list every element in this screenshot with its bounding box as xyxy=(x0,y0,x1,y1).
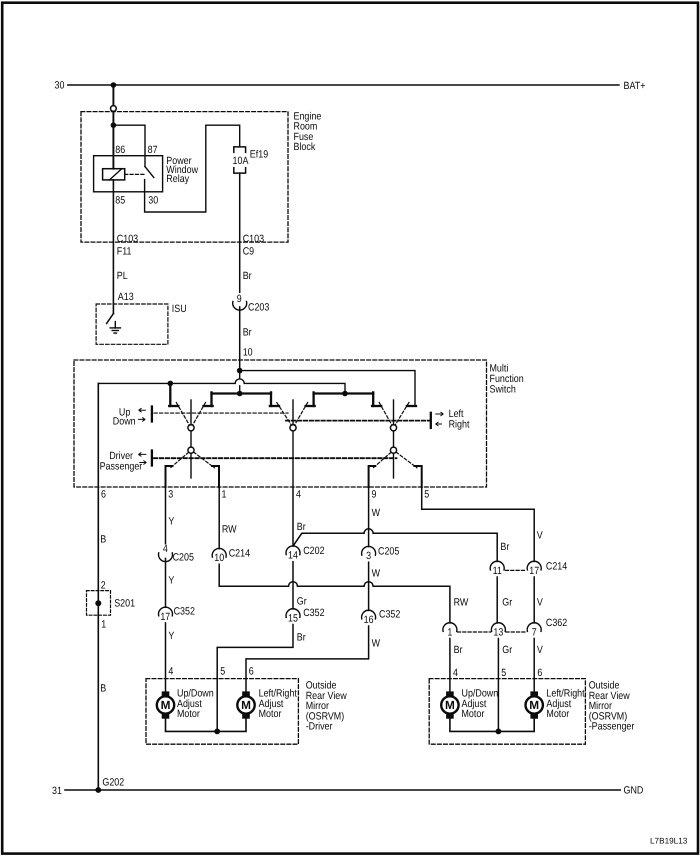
svg-text:2: 2 xyxy=(101,579,106,591)
wire C203 to MFS pin 10 (Br) xyxy=(239,307,241,371)
svg-text:1: 1 xyxy=(101,619,106,631)
svg-text:6: 6 xyxy=(249,666,254,678)
svg-text:C103: C103 xyxy=(117,233,138,245)
svg-text:Br: Br xyxy=(243,327,252,339)
connector C203 pin 9 xyxy=(233,302,247,311)
svg-text:V: V xyxy=(537,597,543,609)
pole3 dashed blades lower xyxy=(373,452,391,468)
svg-text:C205: C205 xyxy=(378,546,399,558)
wire C205-4 (Y) to C352-17 xyxy=(165,558,167,607)
svg-text:BAT+: BAT+ xyxy=(624,80,646,92)
svg-text:4: 4 xyxy=(168,666,173,678)
wire MFS pin4 (Br) to C202-14 xyxy=(292,487,294,546)
svg-text:10A: 10A xyxy=(233,155,249,167)
connector C202 pin 14 xyxy=(286,546,300,555)
wire node to relay pin 87 xyxy=(113,125,145,166)
svg-text:Br: Br xyxy=(243,270,252,282)
svg-text:1: 1 xyxy=(222,489,227,501)
svg-text:C203: C203 xyxy=(248,302,269,314)
Driver/Passenger actuator dashed link xyxy=(154,457,397,459)
ground G202 xyxy=(95,787,101,793)
svg-text:3: 3 xyxy=(168,489,173,501)
Engine Room Fuse Block enclosure xyxy=(81,112,288,243)
arrow left xyxy=(435,412,443,416)
wire fuse to C203 xyxy=(239,173,241,292)
svg-text:C352: C352 xyxy=(379,609,400,621)
svg-text:ISU: ISU xyxy=(172,303,187,315)
svg-text:V: V xyxy=(537,644,543,656)
pole1 pivot circles xyxy=(188,425,194,431)
junction wire10 / bar1 xyxy=(237,391,243,397)
svg-text:Relay: Relay xyxy=(166,173,189,185)
wire C352-15 (Br) to driver motors common pin 5 xyxy=(217,625,293,732)
wire MFS pin5 (V) to C214-17 xyxy=(422,487,535,561)
svg-text:16: 16 xyxy=(364,614,374,626)
svg-text:C362: C362 xyxy=(546,617,567,629)
svg-text:W: W xyxy=(372,568,381,580)
svg-text:11: 11 xyxy=(493,565,502,577)
svg-text:4: 4 xyxy=(296,489,301,501)
pole2 right fixed contact xyxy=(306,405,315,407)
wire MFS pin3 (Y) to C205-4 xyxy=(165,487,167,544)
svg-text:9: 9 xyxy=(372,489,377,501)
arrow down xyxy=(138,417,145,421)
arrow up xyxy=(138,408,443,464)
connector C362 pin 13 xyxy=(491,623,505,632)
contact bar2 (pole2 right + pole3 left) xyxy=(314,392,374,393)
svg-text:S201: S201 xyxy=(114,597,135,609)
svg-text:10: 10 xyxy=(214,552,224,564)
connector C214 pin 17 xyxy=(527,561,541,570)
OSRVM driver enclosure xyxy=(146,679,298,745)
junction passenger rail xyxy=(496,729,502,735)
junction node above relay xyxy=(111,122,117,128)
wire BAT+ rail to connector xyxy=(112,85,114,106)
svg-text:A13: A13 xyxy=(118,291,134,303)
svg-text:5: 5 xyxy=(220,666,225,678)
wire left bus to ground rail (pin 6 / B) xyxy=(97,383,99,790)
svg-text:B: B xyxy=(100,683,106,695)
svg-text:1: 1 xyxy=(447,627,452,639)
svg-text:RW: RW xyxy=(454,597,469,609)
pole3 armature xyxy=(393,400,395,478)
node 30 / BAT+ rail xyxy=(68,84,619,86)
svg-text:Motor: Motor xyxy=(462,708,485,720)
wire C214-17 (V) to C362-7 xyxy=(533,577,535,623)
svg-text:Switch: Switch xyxy=(490,384,516,396)
wire C362-13 (Gr) to passenger motors common pin 5 xyxy=(497,639,499,732)
pole3 lower contact pin9 xyxy=(369,466,376,487)
pole1 lower contact pin3 xyxy=(166,466,173,487)
Left/Right actuator dashed link xyxy=(286,420,430,422)
svg-text:L7B19L13: L7B19L13 xyxy=(650,836,688,845)
wire C352-16 (W) to driver left/right motor pin 6 xyxy=(246,626,369,691)
connector C352 pin 17 xyxy=(159,607,173,616)
C214 mating dashed link xyxy=(506,569,527,571)
svg-text:7: 7 xyxy=(532,627,537,639)
svg-text:M: M xyxy=(445,698,455,712)
fuse Ef19 10A xyxy=(234,147,246,173)
svg-text:87: 87 xyxy=(148,144,158,156)
splice S201 xyxy=(87,591,111,616)
svg-text:C352: C352 xyxy=(303,607,324,619)
svg-text:4: 4 xyxy=(453,667,458,679)
svg-text:C352: C352 xyxy=(174,605,195,617)
svg-text:C9: C9 xyxy=(243,246,255,258)
svg-text:15: 15 xyxy=(288,613,298,625)
pole2 left fixed contact xyxy=(270,405,279,407)
wire branch MFS pin4 (Br) to C214-11 with hop xyxy=(293,529,497,562)
inline connector (open circle) xyxy=(111,106,117,112)
connector C362 pin 1 xyxy=(443,623,457,632)
pole1 armature xyxy=(190,400,192,478)
svg-text:C202: C202 xyxy=(303,545,324,557)
svg-text:G202: G202 xyxy=(102,777,124,789)
pole2 armature (continues as pin 4) xyxy=(292,400,294,487)
wire C214-10 (RW) to C362-1 with hops xyxy=(219,564,450,623)
relay coil xyxy=(103,169,125,180)
svg-text:86: 86 xyxy=(115,144,125,156)
svg-text:Br: Br xyxy=(454,644,463,656)
svg-text:RW: RW xyxy=(222,523,237,535)
connector C214 pin 10 xyxy=(212,548,226,557)
connector C362 pin 7 xyxy=(527,623,541,632)
motor M driver up/down xyxy=(157,691,174,718)
wire pin6 bus with hop over wire 10 xyxy=(98,379,345,394)
svg-text:Motor: Motor xyxy=(259,708,282,720)
wire C214-11 (Gr) to C362-13 xyxy=(496,577,498,623)
wire 10 through hop xyxy=(239,371,241,379)
svg-text:V: V xyxy=(537,530,543,542)
Driver/Passenger actuator bar xyxy=(151,451,153,466)
svg-text:30: 30 xyxy=(55,80,65,92)
pole3 dashed blades upper xyxy=(379,403,392,425)
svg-text:M: M xyxy=(241,698,251,712)
relay K: Power Window Relay box xyxy=(94,156,163,192)
OSRVM passenger enclosure xyxy=(429,679,585,745)
arrow passenger xyxy=(139,461,146,465)
motor M passenger up/down xyxy=(441,691,458,718)
svg-text:14: 14 xyxy=(288,550,298,562)
svg-text:Gr: Gr xyxy=(502,644,512,656)
pole1 left fixed contact xyxy=(169,383,171,406)
ISU module box xyxy=(96,304,168,344)
svg-text:Motor: Motor xyxy=(546,708,569,720)
svg-text:30: 30 xyxy=(148,194,158,206)
pole3 lower contact pin5 xyxy=(415,466,422,487)
svg-text:F11: F11 xyxy=(117,246,132,258)
wire C202-14 (Gr) to C352-15 xyxy=(292,562,294,609)
svg-text:6: 6 xyxy=(537,667,542,679)
arrow right xyxy=(436,422,443,426)
svg-text:Br: Br xyxy=(297,521,306,533)
svg-text:Down: Down xyxy=(113,415,136,427)
svg-text:Y: Y xyxy=(168,630,174,642)
Up/Down actuator dashed link xyxy=(154,412,288,414)
svg-text:GND: GND xyxy=(624,785,644,797)
svg-text:17: 17 xyxy=(529,565,539,577)
svg-text:B: B xyxy=(100,534,106,546)
pole1 right fixed contact xyxy=(204,405,213,407)
ground symbol in ISU xyxy=(110,322,120,334)
svg-text:Motor: Motor xyxy=(177,708,200,720)
contact bar1 (pole1 right + pole2 left) xyxy=(212,392,272,393)
svg-text:31: 31 xyxy=(52,785,62,797)
svg-text:C103: C103 xyxy=(243,233,264,245)
svg-text:85: 85 xyxy=(115,194,125,206)
svg-text:3: 3 xyxy=(366,550,371,562)
relay contact blade xyxy=(145,167,154,178)
svg-text:Gr: Gr xyxy=(297,596,307,608)
wire C362-1 (Br) to passenger up/down motor pin 4 xyxy=(449,639,451,692)
wire connector to relay coil node xyxy=(112,112,114,126)
junction pin6 bus / bar2 xyxy=(342,391,348,397)
svg-text:Right: Right xyxy=(449,418,470,430)
wire node 10 to pole3 right contact xyxy=(240,371,415,406)
pole3 right fixed contact xyxy=(407,405,416,407)
connector C352 pin 15 xyxy=(286,609,300,618)
wire relay pin 30 to fuse Ef19 xyxy=(145,125,240,212)
relay coil-contact link (dashed) xyxy=(125,173,146,175)
svg-text:Block: Block xyxy=(294,141,316,153)
svg-text:9: 9 xyxy=(237,293,242,305)
pole2 dashed blades upper xyxy=(277,403,291,425)
connector C352 pin 16 xyxy=(362,610,376,619)
svg-text:-Passenger: -Passenger xyxy=(589,721,635,733)
svg-text:Gr: Gr xyxy=(502,597,512,609)
pole1 dashed blades upper xyxy=(170,403,417,469)
svg-text:17: 17 xyxy=(160,611,170,623)
motor M driver left/right xyxy=(237,691,254,718)
wire driver motors common rail xyxy=(166,719,247,732)
wire passenger motors common rail xyxy=(450,719,534,732)
junction pin6 bus / pole1 left contact xyxy=(168,381,174,387)
svg-text:C214: C214 xyxy=(229,548,250,560)
wire relay pin 85 down (PL) xyxy=(112,180,114,314)
junction driver rail xyxy=(214,729,220,735)
svg-text:Ef19: Ef19 xyxy=(250,149,268,161)
svg-text:Y: Y xyxy=(168,516,174,528)
pole2 pivot circle xyxy=(290,425,296,431)
wire C352-17 (Y) to driver up/down motor pin 4 xyxy=(165,623,167,692)
svg-text:5: 5 xyxy=(501,667,506,679)
junction on BAT+ rail xyxy=(111,82,117,88)
pole1 dashed blades lower xyxy=(170,452,188,468)
svg-text:Y: Y xyxy=(168,574,174,586)
ground rail 31 / GND xyxy=(65,789,620,791)
wire C205-3 (W) to C352-16 xyxy=(368,562,370,610)
svg-text:10: 10 xyxy=(243,347,253,359)
svg-text:-Driver: -Driver xyxy=(306,721,333,733)
svg-text:Passenger: Passenger xyxy=(100,460,143,472)
connector C214 pin 11 xyxy=(490,561,504,570)
motor M passenger left/right xyxy=(526,691,543,718)
Multi Function Switch enclosure xyxy=(74,360,487,487)
pole1 lower contact pin1 xyxy=(212,466,219,487)
svg-text:M: M xyxy=(161,698,171,712)
node 10 junction xyxy=(237,368,243,374)
Left/Right actuator bar xyxy=(430,413,432,428)
svg-text:6: 6 xyxy=(101,489,106,501)
svg-text:W: W xyxy=(372,507,381,519)
wire junction to relay pin 86 xyxy=(112,125,114,169)
pole3 left fixed contact xyxy=(372,405,381,407)
Up/Down labels xyxy=(100,407,470,501)
ISU switch blade xyxy=(107,314,114,324)
arrow driver xyxy=(138,452,146,456)
svg-text:Br: Br xyxy=(297,632,306,644)
svg-text:M: M xyxy=(529,698,539,712)
svg-text:4: 4 xyxy=(163,543,168,555)
wire C362-7 (V) to passenger left/right motor pin 6 xyxy=(533,639,535,692)
wire MFS pin1 (RW) to C214-10 xyxy=(218,487,220,549)
svg-text:C214: C214 xyxy=(546,561,567,573)
svg-text:C205: C205 xyxy=(173,551,194,563)
wire MFS pin9 (W) to C205-3 xyxy=(368,487,370,547)
svg-text:W: W xyxy=(372,638,381,650)
svg-text:13: 13 xyxy=(493,627,503,639)
svg-text:Br: Br xyxy=(500,541,509,553)
Up/Down actuator bar xyxy=(151,407,153,422)
svg-text:5: 5 xyxy=(424,489,429,501)
connector C205 pin 3 xyxy=(362,546,376,555)
pole3 pivot circles xyxy=(390,425,396,431)
C362 mating dashed links xyxy=(458,631,491,633)
svg-text:PL: PL xyxy=(117,270,128,282)
